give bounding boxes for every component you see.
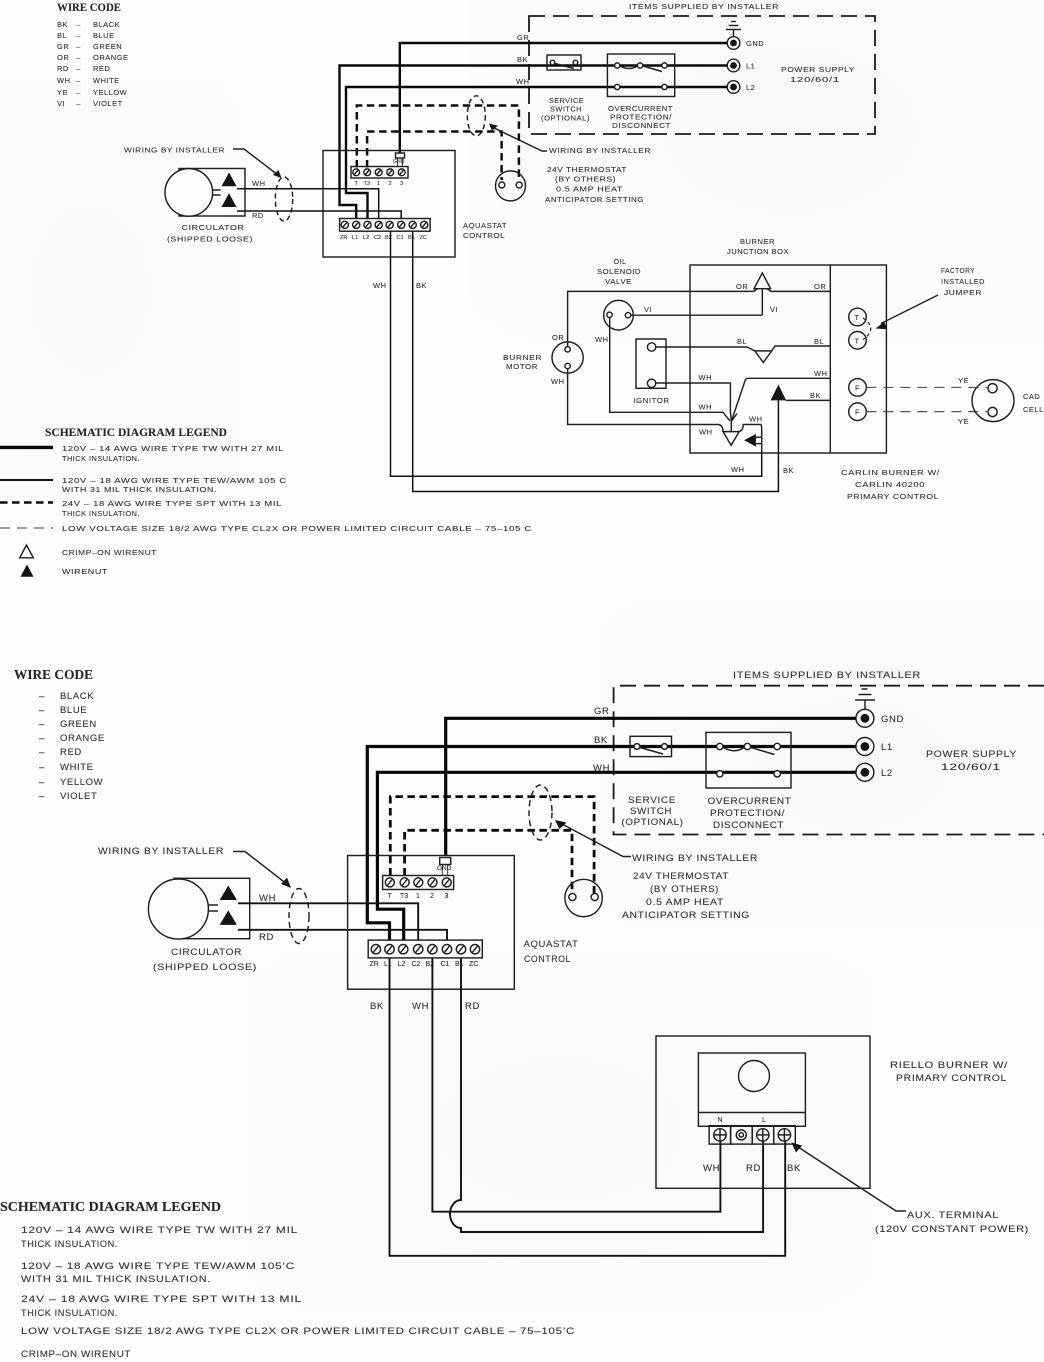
BK wire B1 down to junction (top) [413,232,779,492]
RD wire B1 down to riello with hop (bottom) [450,958,763,1232]
svg-text:–: – [39,733,45,744]
svg-text:WIRING BY INSTALLER: WIRING BY INSTALLER [98,846,224,857]
svg-text:SCHEMATIC DIAGRAM LEGEND: SCHEMATIC DIAGRAM LEGEND [45,427,227,439]
wire GR (top) [400,43,727,153]
svg-text:120/60/1: 120/60/1 [941,762,1001,773]
svg-text:LOW VOLTAGE SIZE 18/2 AWG TYPE: LOW VOLTAGE SIZE 18/2 AWG TYPE CL2X OR P… [21,1326,575,1337]
RD wire circulator to C1 (top) [237,211,401,219]
burner motor [552,342,583,373]
svg-text:PROTECTION/: PROTECTION/ [710,808,785,819]
wire code legend (top) [57,2,129,108]
svg-text:BLUE: BLUE [93,31,115,40]
svg-text:–: – [39,762,45,773]
ground symbol (bottom) [855,689,875,709]
svg-text:BL: BL [737,337,747,346]
riello terminal blocks [709,1126,795,1144]
WH wire B2 down to junction (top) [391,232,762,477]
svg-text:VALVE: VALVE [605,277,632,286]
svg-text:L2: L2 [363,235,369,241]
svg-text:T: T [855,336,860,345]
svg-text:RD: RD [465,1001,480,1012]
svg-text:SWITCH: SWITCH [550,105,582,114]
svg-text:WIRE CODE: WIRE CODE [57,2,121,14]
svg-text:3: 3 [400,181,403,187]
svg-text:IGNITOR: IGNITOR [634,396,670,405]
svg-text:WIRING BY INSTALLER: WIRING BY INSTALLER [549,146,651,155]
aquastat control box (top) [323,151,455,258]
svg-text:CARLIN BURNER W/: CARLIN BURNER W/ [841,468,941,477]
svg-text:CONTROL: CONTROL [463,231,505,240]
svg-text:(BY OTHERS): (BY OTHERS) [650,884,719,895]
overcurrent protection box (top) [607,54,674,130]
crimp right lead to vertical from below [739,425,762,454]
VI wire solenoid to OR crimp [631,314,763,316]
svg-text:ITEMS SUPPLIED BY INSTALLER: ITEMS SUPPLIED BY INSTALLER [733,670,921,681]
svg-text:DISCONNECT: DISCONNECT [612,121,671,130]
oil solenoid valve [604,300,634,330]
cad cell [972,380,1014,422]
svg-text:CRIMP–ON WIRENUT: CRIMP–ON WIRENUT [62,548,157,557]
svg-text:VIOLET: VIOLET [93,99,123,108]
svg-text:BK: BK [810,391,821,400]
svg-text:24V THERMOSTAT: 24V THERMOSTAT [547,165,627,174]
24V dashed wire 1 (top) [357,106,519,181]
svg-text:WITH 31 MIL THICK INSULATION.: WITH 31 MIL THICK INSULATION. [62,485,217,494]
svg-text:ORANGE: ORANGE [93,53,129,62]
T terminals (top) [849,308,867,349]
svg-text:WH: WH [593,763,610,774]
svg-text:1: 1 [416,893,420,900]
svg-text:YE: YE [958,376,969,385]
svg-text:WIRING BY INSTALLER: WIRING BY INSTALLER [632,853,758,864]
svg-text:BK: BK [517,55,528,64]
svg-text:3: 3 [445,893,449,900]
crimp-on wirenut OR (open triangle) [754,273,771,289]
svg-text:RD: RD [746,1163,761,1174]
svg-text:RIELLO BURNER W/: RIELLO BURNER W/ [890,1060,1008,1071]
svg-text:LOW VOLTAGE SIZE 18/2 AWG TYPE: LOW VOLTAGE SIZE 18/2 AWG TYPE CL2X OR P… [62,524,532,533]
svg-text:BK: BK [783,466,794,475]
svg-text:WHITE: WHITE [93,76,120,85]
svg-text:C1: C1 [441,961,450,968]
BL wire ignitor to junction [656,346,831,351]
svg-text:T3: T3 [364,181,371,187]
svg-text:BL: BL [57,31,67,40]
lower terminal strip (top aquastat) [340,219,431,242]
svg-text:OR: OR [814,282,826,291]
svg-text:POWER SUPPLY: POWER SUPPLY [926,749,1017,760]
svg-text:ITEMS SUPPLIED BY INSTALLER: ITEMS SUPPLIED BY INSTALLER [629,2,779,11]
svg-text:–: – [76,99,81,108]
svg-text:L: L [762,1117,766,1124]
svg-text:SERVICE: SERVICE [628,795,676,806]
svg-text:24V – 18 AWG WIRE TYPE SPT WIT: 24V – 18 AWG WIRE TYPE SPT WITH 13 MIL [21,1294,302,1305]
svg-text:JUMPER: JUMPER [944,288,982,297]
svg-text:F: F [855,408,860,417]
svg-text:(SHIPPED LOOSE): (SHIPPED LOOSE) [153,962,257,973]
svg-text:–: – [39,791,45,802]
svg-text:CONTROL: CONTROL [524,954,571,965]
power supply dashed box (bottom) [614,686,1044,835]
svg-text:YE: YE [57,88,68,97]
svg-text:24V – 18 AWG WIRE TYPE SPT WIT: 24V – 18 AWG WIRE TYPE SPT WITH 13 MIL [62,499,282,508]
svg-text:BURNER: BURNER [503,353,542,362]
dashed ellipse cable marker (top right) [467,96,485,136]
svg-text:THICK INSULATION.: THICK INSULATION. [21,1239,118,1250]
svg-text:GR: GR [57,42,69,51]
factory installed jumper arc [863,318,871,340]
wire BK (bottom) [367,747,855,941]
svg-text:120V – 14 AWG WIRE TYPE TW WIT: 120V – 14 AWG WIRE TYPE TW WITH 27 MIL [62,444,284,453]
svg-text:VI: VI [770,305,778,314]
svg-text:WHITE: WHITE [60,762,94,773]
svg-text:RED: RED [60,747,82,758]
WH lead crimp to control [731,378,830,421]
svg-text:YE: YE [958,417,969,426]
svg-text:–: – [39,705,45,716]
svg-text:WH: WH [699,373,713,382]
svg-text:INSTALLED: INSTALLED [941,277,985,286]
svg-text:B1: B1 [408,235,415,241]
svg-text:–: – [76,76,81,85]
wirenut arrow (filled, pointing left) [744,434,756,447]
svg-text:AQUASTAT: AQUASTAT [524,939,579,950]
svg-text:OR: OR [57,53,69,62]
svg-text:ORANGE: ORANGE [60,733,105,744]
BK wire to control [786,399,830,401]
svg-text:THICK INSULATION.: THICK INSULATION. [62,509,140,518]
svg-text:CIRCULATOR: CIRCULATOR [171,947,242,958]
wire code legend (bottom) [14,667,105,802]
service switch box (top) [541,55,590,123]
thermostat (top) [496,171,526,201]
riello control box [698,1053,805,1126]
svg-text:FACTORY: FACTORY [941,266,975,275]
svg-text:120V – 18 AWG WIRE TYPE TEW/AW: 120V – 18 AWG WIRE TYPE TEW/AWM 105 C [62,476,287,485]
dashed ellipse (circulator bottom) [289,889,309,944]
svg-text:–: – [39,719,45,730]
svg-text:–: – [76,88,81,97]
L1 terminal (top) [727,59,755,72]
svg-text:C2: C2 [374,235,381,241]
svg-text:CIRCULATOR: CIRCULATOR [182,223,245,232]
svg-text:F: F [855,383,860,392]
svg-text:(OPTIONAL): (OPTIONAL) [622,817,684,828]
svg-text:RD: RD [57,64,69,73]
svg-text:RD: RD [259,932,274,943]
svg-text:0.5 AMP HEAT: 0.5 AMP HEAT [556,185,623,194]
wire WH (bottom) [377,772,855,940]
svg-text:DISCONNECT: DISCONNECT [713,820,784,831]
overcurrent protection box (bottom) [706,732,792,831]
svg-text:YELLOW: YELLOW [60,777,103,788]
WH wire circulator to C2 (top) [237,189,379,219]
svg-text:T: T [388,893,393,900]
svg-text:CAD: CAD [1023,392,1040,401]
24V dashed wire 2 (top) [367,132,502,181]
svg-text:T: T [855,313,860,322]
svg-text:POWER SUPPLY: POWER SUPPLY [781,65,855,74]
svg-text:WH: WH [595,335,609,344]
wirenut triangles (top circulator) [222,173,237,187]
svg-text:ZR: ZR [370,961,379,968]
svg-text:120V – 14 AWG WIRE TYPE TW WIT: 120V – 14 AWG WIRE TYPE TW WITH 27 MIL [21,1225,298,1236]
svg-text:WIRENUT: WIRENUT [62,567,108,576]
svg-text:GND: GND [437,865,452,872]
power supply dashed box (top) [529,16,875,134]
svg-text:BK: BK [416,281,427,290]
circulator (bottom) [148,878,276,973]
svg-text:BK: BK [594,735,608,746]
svg-text:OR: OR [736,282,748,291]
svg-text:PRIMARY CONTROL: PRIMARY CONTROL [896,1073,1007,1084]
riello burner outer box [656,1036,870,1188]
svg-text:VI: VI [644,305,652,314]
ground symbol (top) [726,22,741,37]
svg-text:WH: WH [516,77,530,86]
svg-text:OR: OR [552,333,564,342]
wire BK (top) [340,66,728,219]
dashed ellipse cable marker (bottom right) [529,785,552,840]
wire WH (top) [346,87,727,219]
L1 terminal (bottom) [856,738,893,756]
OR wire motor to junction box [568,289,831,347]
crimp funnel apex to triangle [730,421,732,431]
svg-text:(120V CONSTANT POWER): (120V CONSTANT POWER) [875,1224,1029,1235]
svg-text:WH: WH [252,179,266,188]
svg-text:BLUE: BLUE [60,705,87,716]
svg-text:SCHEMATIC DIAGRAM LEGEND: SCHEMATIC DIAGRAM LEGEND [0,1199,221,1214]
svg-text:VIOLET: VIOLET [60,791,97,802]
svg-text:BK: BK [787,1163,801,1174]
svg-text:120/60/1: 120/60/1 [790,75,840,84]
svg-text:PRIMARY CONTROL: PRIMARY CONTROL [847,492,939,501]
svg-text:BK: BK [370,1001,384,1012]
WH wire circulator to C2 (bottom) [238,903,418,940]
svg-text:0.5 AMP HEAT: 0.5 AMP HEAT [646,897,724,908]
svg-text:SOLENOID: SOLENOID [597,267,641,276]
svg-text:AUX. TERMINAL: AUX. TERMINAL [907,1210,999,1221]
ignitor [636,339,666,388]
svg-text:WIRE CODE: WIRE CODE [14,667,93,682]
svg-text:L1: L1 [384,961,392,968]
svg-text:L1: L1 [352,235,358,241]
dashed ellipse (circulator top) [275,177,292,221]
service switch box (bottom) [622,736,684,828]
svg-text:B1: B1 [455,961,464,968]
svg-text:BK: BK [57,20,68,29]
svg-text:GND: GND [881,714,904,725]
wire GR (bottom) [446,718,856,856]
svg-text:ZC: ZC [420,235,427,241]
svg-text:YELLOW: YELLOW [93,88,128,97]
svg-text:C2: C2 [412,961,421,968]
WH crimp (open triangle down) [723,432,739,446]
svg-text:RED: RED [93,64,110,73]
F terminals (top) [849,379,867,421]
svg-text:WH: WH [412,1001,429,1012]
cad cell dashed wires [866,386,987,388]
svg-text:L2: L2 [398,961,406,968]
svg-text:WH: WH [373,281,387,290]
svg-text:BURNER: BURNER [740,237,775,246]
svg-text:–: – [76,53,81,62]
svg-text:24V THERMOSTAT: 24V THERMOSTAT [633,871,729,882]
svg-text:120V – 18 AWG WIRE TYPE TEW/AW: 120V – 18 AWG WIRE TYPE TEW/AWM 105’C [21,1261,295,1272]
BK wirenut (filled triangle up) [771,385,787,401]
svg-text:–: – [39,691,45,702]
svg-text:WIRING BY INSTALLER: WIRING BY INSTALLER [124,146,225,155]
svg-text:T: T [355,181,359,187]
svg-text:GR: GR [594,706,609,717]
svg-text:–: – [39,777,45,788]
svg-text:CARLIN 40200: CARLIN 40200 [855,480,925,489]
upper terminal strip (bottom aquastat) [383,858,454,901]
wiring by installer arrow (top right) [490,126,547,151]
BK wire L1 down to riello (bottom) [390,958,786,1256]
svg-text:ANTICIPATOR SETTING: ANTICIPATOR SETTING [622,910,750,921]
thermostat (bottom) [565,879,602,916]
wirenut triangles (bottom circulator) [220,886,237,901]
svg-text:L1: L1 [746,62,755,71]
svg-text:T3: T3 [400,893,408,900]
svg-text:–: – [76,20,81,29]
svg-text:C1: C1 [397,235,404,241]
svg-text:2: 2 [430,893,434,900]
wiring by installer arrow (bottom right) [561,824,631,857]
L2 terminal (bottom) [856,763,893,781]
svg-text:WH: WH [731,465,745,474]
aquastat control box (bottom) [348,856,515,990]
24V dashed wire 1 (bottom) [390,797,594,893]
svg-text:ZC: ZC [469,961,478,968]
WH wire B2 down to riello (bottom) [432,958,720,1212]
svg-text:GREEN: GREEN [93,42,122,51]
svg-text:WH: WH [814,369,828,378]
svg-text:WH: WH [699,428,713,437]
svg-text:WH: WH [703,1163,720,1174]
svg-text:VI: VI [57,99,65,108]
svg-text:BLACK: BLACK [60,691,94,702]
svg-text:1: 1 [377,181,380,187]
svg-text:CRIMP–ON WIRENUT: CRIMP–ON WIRENUT [21,1349,131,1360]
svg-text:GND: GND [746,39,764,48]
svg-text:–: – [39,747,45,758]
upper terminal strip (top aquastat) [351,153,408,187]
circulator (top) [165,169,266,244]
svg-text:N: N [718,1117,723,1124]
svg-text:ZR: ZR [340,235,347,241]
svg-text:–: – [76,31,81,40]
24V dashed wire 2 (bottom) [405,830,572,893]
RD wire circulator to C1 (bottom) [238,930,447,940]
burner junction box [690,265,886,453]
svg-text:L2: L2 [746,83,755,92]
GND terminal (top) [727,37,764,50]
svg-text:(SHIPPED LOOSE): (SHIPPED LOOSE) [167,235,253,244]
svg-text:WH: WH [749,415,763,424]
svg-text:GND: GND [393,159,405,165]
svg-text:WITH 31 MIL THICK INSULATION.: WITH 31 MIL THICK INSULATION. [21,1274,211,1285]
ignitor WH wire to crimp [656,383,737,421]
svg-text:–: – [76,64,81,73]
svg-text:(BY OTHERS): (BY OTHERS) [555,175,616,184]
svg-text:JUNCTION BOX: JUNCTION BOX [727,247,789,256]
svg-text:WH: WH [699,403,713,412]
svg-text:GR: GR [517,33,529,42]
svg-text:GREEN: GREEN [60,719,97,730]
svg-text:–: – [76,42,81,51]
lower terminal strip (bottom aquastat) [368,940,482,968]
motor WH wire to crimp [568,369,723,432]
svg-text:L2: L2 [881,768,893,779]
crimp-on wirenut BL (open triangle down) [755,351,772,363]
GND terminal (bottom) [856,709,904,727]
svg-text:MOTOR: MOTOR [506,362,538,371]
svg-text:2: 2 [389,181,392,187]
aux terminal label + arrow [795,1145,906,1211]
svg-text:WH: WH [551,377,565,386]
svg-text:(OPTIONAL): (OPTIONAL) [541,114,590,123]
svg-text:SWITCH: SWITCH [630,806,672,817]
svg-text:OIL: OIL [614,257,627,266]
L2 terminal (top) [727,81,755,94]
svg-text:THICK INSULATION.: THICK INSULATION. [21,1308,118,1319]
svg-text:THICK INSULATION.: THICK INSULATION. [62,454,140,463]
svg-text:ANTICIPATOR SETTING: ANTICIPATOR SETTING [545,195,644,204]
solenoid WH wire down [610,318,730,421]
svg-text:CELL: CELL [1023,405,1044,414]
svg-text:OVERCURRENT: OVERCURRENT [708,796,792,807]
svg-text:BL: BL [814,337,824,346]
svg-text:BLACK: BLACK [93,20,120,29]
svg-text:RD: RD [252,211,264,220]
svg-text:L1: L1 [881,742,893,753]
svg-text:WH: WH [57,76,71,85]
svg-text:AQUASTAT: AQUASTAT [463,221,507,230]
